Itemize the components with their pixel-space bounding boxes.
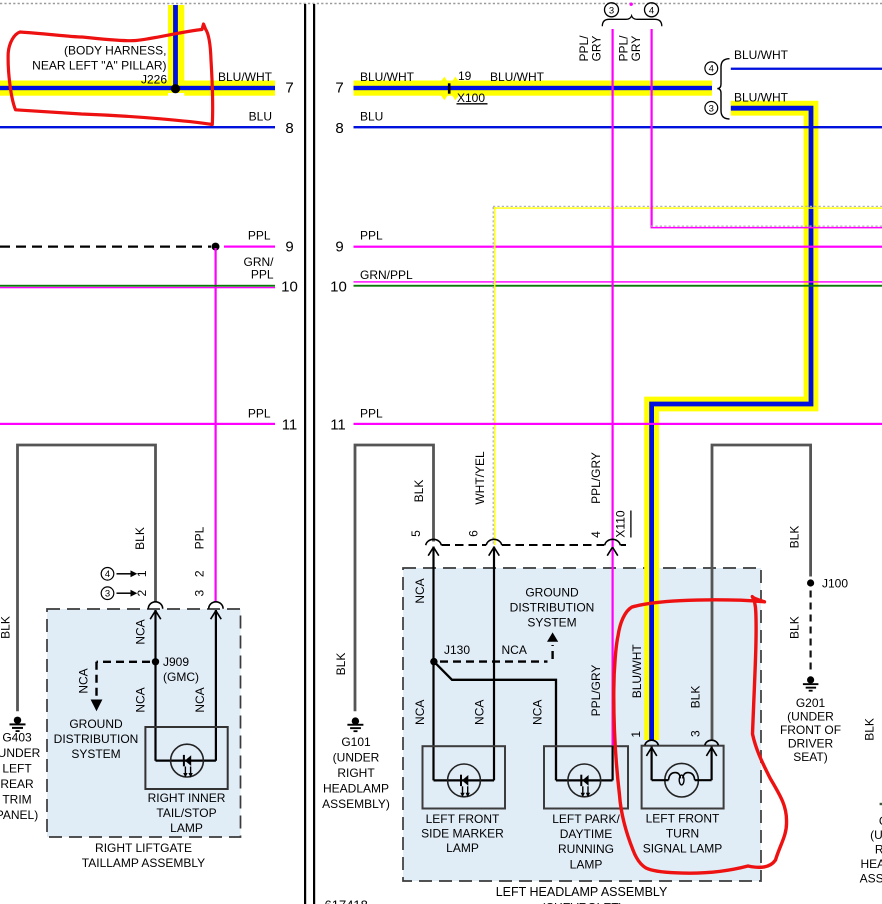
wire NCA dashed from J130	[440, 660, 548, 662]
ground G201	[807, 676, 814, 683]
bus 7 left highlight	[0, 81, 275, 96]
connector arc PPL into box	[209, 602, 223, 609]
svg-text:G201: G201	[796, 696, 826, 710]
svg-text:DAYTIME: DAYTIME	[560, 827, 612, 841]
page divider double line	[304, 4, 306, 904]
bus 9 left PPL stub	[224, 246, 275, 248]
svg-text:GRY: GRY	[629, 36, 643, 62]
svg-text:PPL/GRY: PPL/GRY	[589, 452, 603, 504]
red annotation loop right	[614, 597, 787, 874]
wire NCA pin5 (X110 to side marker)	[432, 547, 434, 781]
park lamp right terminal	[611, 746, 613, 780]
svg-text:(UNDER: (UNDER	[870, 828, 882, 842]
ground G101	[352, 717, 359, 724]
svg-text:LEFT FRONT: LEFT FRONT	[646, 812, 720, 826]
svg-text:3: 3	[688, 730, 702, 737]
svg-text:19: 19	[458, 69, 472, 83]
callout circle 4 (wire to right)	[705, 62, 718, 75]
lamp box LEFT PARK/DAYTIME RUNNING	[544, 746, 628, 808]
bus 7 left blue	[0, 86, 275, 90]
park terminal horizontal	[556, 779, 613, 781]
svg-text:BLK: BLK	[133, 527, 147, 550]
svg-text:3: 3	[105, 589, 110, 600]
connector X110 arc pin4	[605, 539, 621, 545]
svg-text:LEFT PARK/: LEFT PARK/	[552, 812, 620, 826]
svg-text:(CHEVROLET): (CHEVROLET)	[541, 901, 622, 904]
svg-text:NCA: NCA	[413, 700, 427, 725]
svg-text:GROUND: GROUND	[525, 585, 579, 599]
arrow to ground distribution	[91, 700, 103, 712]
svg-text:7: 7	[285, 80, 293, 97]
arrow to ground distribution (up)	[547, 632, 558, 641]
lamp box LEFT FRONT TURN SIGNAL	[642, 746, 724, 809]
wire NCA dashed branch from J909	[97, 661, 151, 663]
svg-text:9: 9	[285, 239, 293, 256]
svg-text:4: 4	[709, 64, 714, 75]
svg-text:(BODY HARNESS,: (BODY HARNESS,	[64, 44, 166, 58]
svg-text:ASSEMBLY): ASSEMBLY)	[322, 797, 390, 811]
WHT/YEL wire vertical	[492, 207, 494, 545]
connector X100 highlight diamonds	[436, 77, 452, 101]
svg-text:BLU/WHT: BLU/WHT	[360, 70, 415, 84]
svg-text:8: 8	[285, 120, 293, 137]
wire PPL/GRY vertical B + horizontal (pin 4)	[651, 29, 653, 228]
svg-text:DISTRIBUTION: DISTRIBUTION	[510, 601, 595, 615]
svg-text:BLK: BLK	[0, 616, 13, 639]
svg-text:PPL: PPL	[248, 229, 271, 243]
WHT/YEL wire horizontal	[493, 205, 882, 207]
bus 10 right GRN/PPL	[354, 281, 882, 282]
connector arc turn pin1	[645, 740, 659, 745]
svg-text:BLK: BLK	[787, 616, 801, 639]
svg-text:BLU/WHT: BLU/WHT	[734, 48, 789, 62]
svg-text:617418: 617418	[325, 897, 368, 904]
terminal arrow BLK	[150, 611, 161, 620]
connector X110 arc pin5	[426, 539, 442, 545]
svg-text:DISTRIBUTION: DISTRIBUTION	[54, 732, 139, 746]
svg-text:BLU/WHT: BLU/WHT	[490, 70, 545, 84]
svg-text:NCA: NCA	[134, 687, 148, 712]
right edge ground mark	[880, 803, 882, 805]
svg-text:X100: X100	[457, 91, 485, 105]
svg-text:8: 8	[335, 120, 343, 137]
svg-text:TRIM: TRIM	[2, 793, 31, 807]
svg-text:BLK: BLK	[688, 686, 702, 709]
svg-text:6: 6	[466, 530, 480, 537]
svg-text:SIDE MARKER: SIDE MARKER	[421, 827, 504, 841]
svg-text:RUNNING: RUNNING	[558, 842, 614, 856]
junction J100	[807, 579, 814, 586]
svg-text:DRIVER: DRIVER	[788, 737, 834, 751]
svg-text:TAILLAMP ASSEMBLY: TAILLAMP ASSEMBLY	[82, 856, 205, 870]
wire BLK dashed J100 to G201	[809, 591, 811, 673]
svg-text:11: 11	[282, 417, 298, 434]
svg-text:SIGNAL LAMP: SIGNAL LAMP	[643, 842, 723, 856]
svg-text:2: 2	[193, 570, 207, 577]
svg-text:3: 3	[709, 103, 714, 114]
svg-text:9: 9	[335, 239, 343, 256]
top callout circle 4	[645, 3, 659, 17]
svg-text:NCA: NCA	[502, 643, 527, 657]
svg-text:NCA: NCA	[472, 700, 486, 725]
svg-text:7: 7	[335, 80, 343, 97]
svg-text:J226: J226	[141, 73, 167, 87]
assembly box LEFT HEADLAMP (right page)	[403, 568, 761, 881]
svg-text:SYSTEM: SYSTEM	[71, 747, 120, 761]
bus 8 right BLU	[354, 126, 882, 128]
page top dotted edge	[0, 3, 882, 5]
svg-text:LEFT: LEFT	[2, 762, 32, 776]
svg-text:PPL: PPL	[360, 407, 383, 421]
assembly box RIGHT LIFTGATE TAILLAMP (left page)	[47, 609, 241, 837]
svg-text:LAMP: LAMP	[170, 821, 203, 835]
svg-text:(UNDER: (UNDER	[0, 746, 41, 760]
bus 10 left GRN/PPL	[0, 285, 275, 287]
wire NCA J130 to park lamp	[434, 662, 556, 781]
terminal arrow pin5	[428, 547, 439, 556]
svg-text:(UNDER: (UNDER	[333, 751, 380, 765]
wire PPL vertical (left page)	[215, 248, 217, 603]
lamp terminal horizontal	[156, 759, 216, 761]
svg-text:PPL/GRY: PPL/GRY	[589, 665, 603, 717]
bus 7 right highlight	[354, 81, 713, 96]
LED circle RITL	[171, 744, 204, 777]
svg-text:10: 10	[281, 279, 298, 296]
svg-text:GROUND: GROUND	[69, 717, 123, 731]
svg-text:LEFT FRONT: LEFT FRONT	[426, 812, 500, 826]
svg-text:RIGHT INNER: RIGHT INNER	[148, 791, 226, 805]
svg-text:LAMP: LAMP	[570, 858, 603, 872]
svg-text:NCA: NCA	[77, 668, 91, 693]
svg-text:2: 2	[135, 590, 149, 597]
svg-text:LEFT HEADLAMP ASSEMBLY: LEFT HEADLAMP ASSEMBLY	[496, 885, 668, 899]
turn terminal 1	[650, 747, 652, 781]
svg-text:RIGHT: RIGHT	[875, 842, 882, 856]
svg-text:BLK: BLK	[412, 480, 426, 503]
svg-text:3: 3	[609, 5, 614, 16]
svg-text:G403: G403	[2, 731, 32, 745]
turn terminal 3	[710, 747, 712, 781]
top callout circle 3	[605, 3, 619, 17]
svg-text:HEADLAMP: HEADLAMP	[323, 782, 389, 796]
svg-text:RIGHT: RIGHT	[337, 766, 375, 780]
svg-text:11: 11	[330, 417, 346, 434]
wire PPL/GRY vertical A (pin 3, to park lamp)	[612, 29, 614, 746]
bus 11 right PPL	[354, 423, 882, 425]
svg-text:PPL: PPL	[248, 407, 271, 421]
junction on bus 9	[212, 243, 220, 251]
svg-text:10: 10	[330, 279, 347, 296]
side marker terminal horizontal	[434, 779, 495, 781]
LED diode park	[580, 775, 582, 786]
svg-text:REAR: REAR	[0, 777, 34, 791]
svg-text:BLK: BLK	[334, 653, 348, 676]
svg-text:4: 4	[649, 5, 654, 16]
junction J909	[152, 658, 159, 665]
svg-text:4: 4	[105, 569, 110, 580]
lamp box RIGHT INNER TAIL/STOP	[145, 727, 227, 789]
brace at end of bus 7	[717, 59, 729, 119]
svg-text:4: 4	[589, 531, 603, 538]
svg-text:SYSTEM: SYSTEM	[527, 616, 576, 630]
svg-text:BLU: BLU	[360, 110, 383, 124]
svg-text:1: 1	[135, 570, 149, 577]
wire BLK staple to G101	[355, 445, 434, 711]
svg-text:HEADLAMP: HEADLAMP	[860, 857, 882, 871]
svg-text:BLK: BLK	[787, 526, 801, 549]
terminal arrow PPL	[211, 611, 222, 620]
connector X110 arc pin6	[486, 539, 502, 545]
svg-text:GRY: GRY	[590, 36, 604, 62]
callout circle 4 with arrow	[101, 568, 114, 581]
svg-text:LAMP: LAMP	[446, 841, 479, 855]
svg-text:BLK: BLK	[862, 718, 876, 741]
bus 9 left dashed	[0, 246, 211, 248]
connector arc BLK into box	[148, 602, 162, 609]
svg-text:RIGHT LIFTGATE: RIGHT LIFTGATE	[95, 841, 192, 855]
wire NCA BLK inside box	[154, 610, 156, 761]
top brace	[602, 16, 662, 26]
svg-text:NCA: NCA	[134, 619, 148, 644]
svg-text:J100: J100	[822, 576, 848, 590]
svg-text:J130: J130	[444, 643, 470, 657]
svg-text:PPL: PPL	[360, 229, 383, 243]
svg-text:PPL: PPL	[193, 526, 207, 549]
junction J130	[430, 658, 437, 665]
LED circle park	[568, 764, 601, 797]
wire NCA pin6 (X110 to side marker)	[493, 547, 495, 781]
svg-text:5: 5	[409, 530, 423, 537]
svg-text:3: 3	[193, 590, 207, 597]
red annotation loop left	[8, 24, 213, 125]
svg-text:TAIL/STOP: TAIL/STOP	[156, 806, 216, 820]
wire BLU/WHT circuit 3 highlighted (right page, X100 to turn lamp)	[652, 108, 811, 740]
svg-text:FRONT OF: FRONT OF	[780, 723, 841, 737]
wire vertical blue J226	[173, 5, 178, 89]
wire BLU/WHT circuit 4 (right page, to right edge)	[731, 68, 882, 70]
svg-text:X110: X110	[614, 510, 628, 537]
svg-text:ASSEMBLY): ASSEMBLY)	[860, 871, 882, 885]
callout circle 3 with arrow	[101, 587, 114, 600]
svg-text:SEAT): SEAT)	[793, 750, 827, 764]
bus 8 left BLU	[0, 126, 275, 128]
LED circle side marker	[448, 764, 481, 797]
top magenta dot	[630, 2, 633, 5]
svg-text:G101: G101	[341, 735, 371, 749]
svg-text:TURN: TURN	[666, 827, 699, 841]
svg-text:1: 1	[629, 731, 643, 738]
svg-text:NCA: NCA	[530, 700, 544, 725]
LED diode side marker	[460, 775, 462, 786]
wire BLK staple turn lamp to J100	[712, 445, 811, 740]
callout circle 3 (highlighted wire)	[705, 102, 718, 115]
svg-text:NCA: NCA	[193, 687, 207, 712]
svg-text:NCA: NCA	[413, 578, 427, 603]
connector X100 tick	[448, 83, 451, 93]
svg-text:NEAR LEFT "A" PILLAR): NEAR LEFT "A" PILLAR)	[32, 59, 166, 73]
wire vertical BLU/WHT into J226 highlight	[168, 5, 184, 88]
svg-text:(UNDER: (UNDER	[787, 710, 834, 724]
wire BLK staple to G403	[18, 445, 156, 711]
junction J226	[171, 84, 180, 93]
bulb circle turn	[665, 763, 699, 797]
bus 7 right blue	[354, 86, 713, 90]
svg-text:BLU/WHT: BLU/WHT	[734, 91, 789, 105]
svg-text:BLU/WHT: BLU/WHT	[218, 70, 273, 84]
svg-text:GRN/PPL: GRN/PPL	[360, 268, 413, 282]
svg-text:WHT/YEL: WHT/YEL	[473, 451, 487, 505]
wire NCA PPL inside box	[215, 610, 217, 761]
svg-text:BLU/WHT: BLU/WHT	[630, 644, 644, 699]
terminal arrow pin6	[489, 547, 500, 556]
svg-text:PANEL): PANEL)	[0, 808, 38, 822]
bus 11 left PPL	[0, 423, 275, 425]
svg-text:(GMC): (GMC)	[163, 670, 199, 684]
svg-text:J909: J909	[163, 655, 189, 669]
LED diode RITL	[183, 755, 185, 766]
ground G403	[14, 717, 21, 724]
terminal arrow pin4	[607, 547, 618, 556]
connector arc turn pin3	[705, 740, 719, 745]
connector X110 dashed line	[442, 544, 487, 546]
svg-text:BLU: BLU	[249, 110, 272, 124]
bus 9 right PPL	[354, 246, 882, 248]
svg-text:PPL: PPL	[251, 268, 274, 282]
bulb filament	[652, 779, 669, 781]
lamp box LEFT FRONT SIDE MARKER	[423, 746, 506, 808]
